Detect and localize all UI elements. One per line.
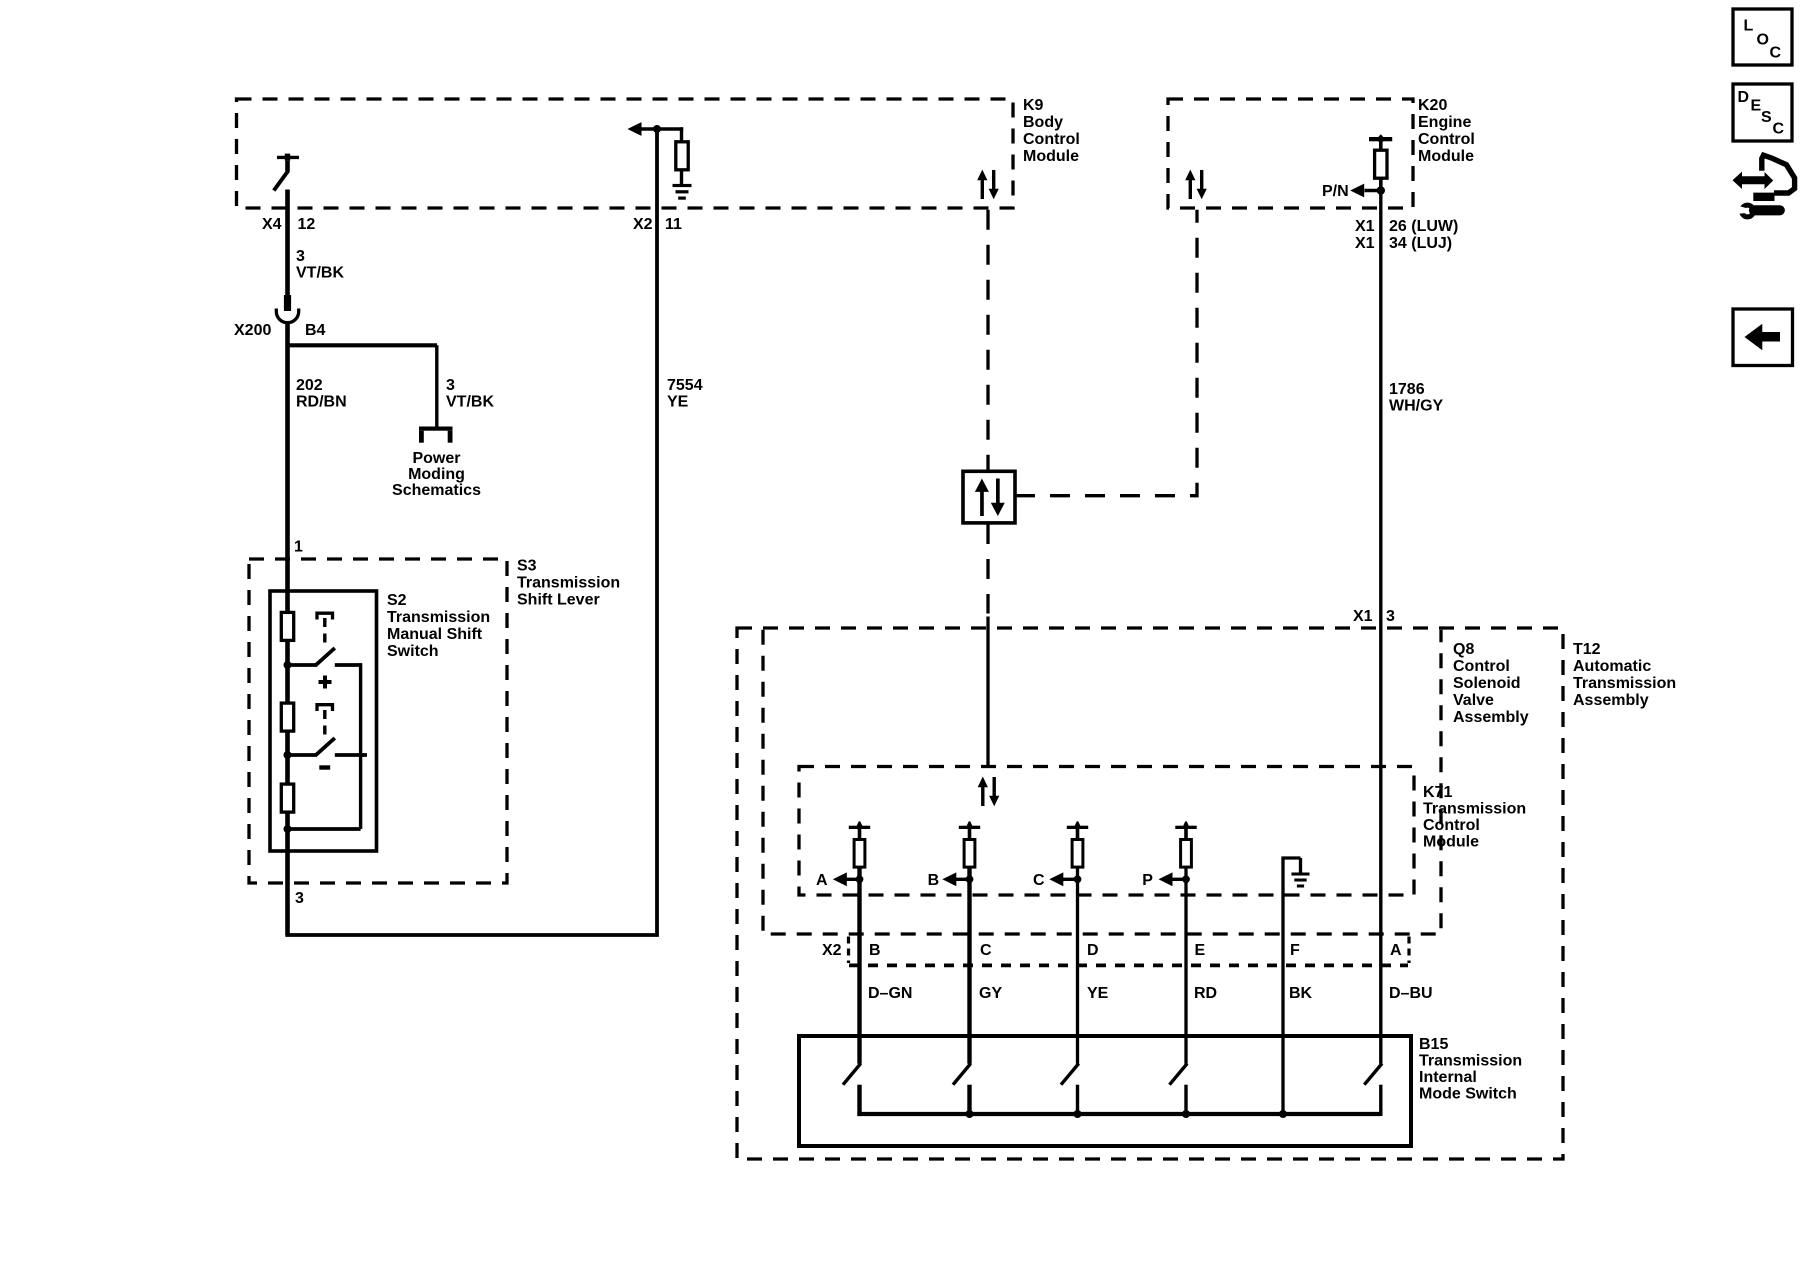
svg-text:B: B bbox=[928, 872, 940, 889]
svg-text:RD: RD bbox=[1194, 985, 1217, 1002]
svg-text:K71: K71 bbox=[1423, 784, 1452, 801]
svg-text:Shift Lever: Shift Lever bbox=[517, 592, 600, 609]
svg-text:D: D bbox=[1738, 89, 1750, 106]
svg-text:O: O bbox=[1757, 32, 1769, 49]
svg-text:D: D bbox=[1087, 942, 1099, 959]
svg-text:X200: X200 bbox=[234, 322, 271, 339]
svg-text:X2: X2 bbox=[633, 216, 653, 233]
svg-text:Module: Module bbox=[1418, 148, 1474, 165]
svg-text:P: P bbox=[1142, 872, 1153, 889]
svg-text:Transmission: Transmission bbox=[1419, 1053, 1522, 1070]
svg-text:YE: YE bbox=[667, 394, 689, 411]
svg-text:B: B bbox=[869, 942, 881, 959]
svg-text:202: 202 bbox=[296, 377, 323, 394]
svg-text:L: L bbox=[1744, 18, 1754, 35]
svg-text:C: C bbox=[1773, 121, 1785, 138]
svg-text:Manual Shift: Manual Shift bbox=[387, 626, 483, 643]
svg-text:C: C bbox=[1770, 45, 1782, 62]
svg-text:3: 3 bbox=[295, 890, 304, 907]
svg-text:Body: Body bbox=[1023, 114, 1063, 131]
svg-text:K9: K9 bbox=[1023, 97, 1044, 114]
svg-text:A: A bbox=[816, 872, 828, 889]
svg-text:1786: 1786 bbox=[1389, 381, 1425, 398]
svg-text:B15: B15 bbox=[1419, 1036, 1448, 1053]
svg-text:X2: X2 bbox=[822, 942, 842, 959]
svg-text:3: 3 bbox=[296, 248, 305, 265]
svg-text:S2: S2 bbox=[387, 592, 407, 609]
svg-text:E: E bbox=[1751, 98, 1762, 115]
svg-text:Module: Module bbox=[1023, 148, 1079, 165]
svg-text:34 (LUJ): 34 (LUJ) bbox=[1389, 235, 1452, 252]
svg-text:Solenoid: Solenoid bbox=[1453, 675, 1521, 692]
svg-text:Control: Control bbox=[1453, 658, 1510, 675]
svg-text:Mode Switch: Mode Switch bbox=[1419, 1086, 1517, 1103]
svg-text:Module: Module bbox=[1423, 834, 1479, 851]
svg-text:7554: 7554 bbox=[667, 377, 703, 394]
svg-text:26 (LUW): 26 (LUW) bbox=[1389, 218, 1458, 235]
svg-text:K20: K20 bbox=[1418, 97, 1447, 114]
svg-text:X1: X1 bbox=[1353, 608, 1373, 625]
svg-text:11: 11 bbox=[665, 216, 682, 233]
svg-text:Transmission: Transmission bbox=[1423, 801, 1526, 818]
svg-text:B4: B4 bbox=[305, 322, 326, 339]
svg-text:X1: X1 bbox=[1355, 218, 1375, 235]
svg-text:Transmission: Transmission bbox=[1573, 675, 1676, 692]
svg-text:Control: Control bbox=[1023, 131, 1080, 148]
svg-text:VT/BK: VT/BK bbox=[296, 265, 344, 282]
svg-text:X4: X4 bbox=[262, 216, 282, 233]
svg-text:RD/BN: RD/BN bbox=[296, 394, 347, 411]
svg-text:Transmission: Transmission bbox=[517, 575, 620, 592]
svg-text:Switch: Switch bbox=[387, 643, 439, 660]
svg-text:GY: GY bbox=[979, 985, 1002, 1002]
svg-text:Control: Control bbox=[1418, 131, 1475, 148]
svg-text:12: 12 bbox=[298, 216, 316, 233]
svg-text:Valve: Valve bbox=[1453, 692, 1494, 709]
svg-text:E: E bbox=[1195, 942, 1206, 959]
svg-text:Moding: Moding bbox=[408, 466, 465, 483]
svg-text:Transmission: Transmission bbox=[387, 609, 490, 626]
svg-text:BK: BK bbox=[1289, 985, 1313, 1002]
svg-text:Schematics: Schematics bbox=[392, 482, 481, 499]
svg-text:C: C bbox=[1033, 872, 1045, 889]
svg-text:C: C bbox=[980, 942, 992, 959]
svg-text:3: 3 bbox=[446, 377, 455, 394]
svg-text:Q8: Q8 bbox=[1453, 641, 1474, 658]
svg-text:Engine: Engine bbox=[1418, 114, 1471, 131]
svg-text:S: S bbox=[1761, 109, 1772, 126]
svg-text:Control: Control bbox=[1423, 817, 1480, 834]
svg-text:D–BU: D–BU bbox=[1389, 985, 1433, 1002]
svg-text:Internal: Internal bbox=[1419, 1069, 1477, 1086]
svg-text:T12: T12 bbox=[1573, 641, 1601, 658]
svg-text:Assembly: Assembly bbox=[1453, 709, 1529, 726]
svg-text:VT/BK: VT/BK bbox=[446, 394, 494, 411]
svg-text:A: A bbox=[1390, 942, 1402, 959]
svg-text:P/N: P/N bbox=[1322, 183, 1349, 200]
svg-text:S3: S3 bbox=[517, 558, 537, 575]
svg-text:WH/GY: WH/GY bbox=[1389, 398, 1444, 415]
svg-text:3: 3 bbox=[1386, 608, 1395, 625]
svg-text:X1: X1 bbox=[1355, 235, 1375, 252]
svg-text:Power: Power bbox=[412, 450, 460, 467]
svg-text:F: F bbox=[1290, 942, 1300, 959]
svg-text:Automatic: Automatic bbox=[1573, 658, 1651, 675]
svg-text:Assembly: Assembly bbox=[1573, 692, 1649, 709]
svg-text:YE: YE bbox=[1087, 985, 1109, 1002]
svg-text:D–GN: D–GN bbox=[868, 985, 912, 1002]
svg-text:1: 1 bbox=[294, 539, 303, 556]
